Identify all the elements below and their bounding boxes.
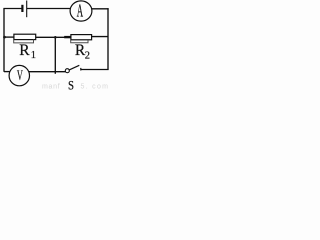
wire smudge before R2	[64, 36, 71, 38]
svg-text:S: S	[68, 78, 74, 92]
wire bottom-left corner to voltmeter	[4, 71, 10, 73]
wire middle vertical (node between R1 and R2 down to voltmeter row)	[54, 37, 56, 74]
wire top segment 2	[27, 8, 71, 10]
wire right rail	[107, 8, 109, 69]
voltmeter V circle	[9, 65, 29, 85]
wire middle segment 3	[91, 36, 108, 38]
battery negative plate (short thick)	[21, 5, 23, 12]
svg-text:V: V	[17, 66, 23, 83]
svg-text:R: R	[19, 42, 30, 59]
resistor R1 box	[14, 34, 36, 39]
resistor R2 box 3D bottom face	[71, 40, 88, 43]
svg-text:manf: manf	[42, 84, 60, 91]
wire voltmeter to switch	[29, 71, 66, 73]
svg-text:1: 1	[31, 50, 36, 61]
svg-text:5. com: 5. com	[81, 83, 110, 90]
resistor R1 box 3D bottom face	[14, 39, 34, 43]
wire switch to bottom-right corner	[81, 69, 109, 71]
svg-text:2: 2	[85, 50, 90, 61]
svg-text:A: A	[77, 1, 83, 20]
resistor R2 box	[71, 35, 92, 40]
switch S blade	[69, 65, 79, 70]
node junction dot middle vertical / middle wire	[54, 36, 57, 39]
wire top segment 1	[3, 8, 21, 10]
wire left rail	[3, 9, 5, 72]
wire top segment 3	[92, 8, 109, 10]
wire middle segment 1	[4, 36, 14, 38]
node junction dot left rail / middle wire	[3, 36, 6, 39]
switch S fixed contact tick	[80, 68, 82, 71]
wire middle segment 2	[36, 36, 71, 38]
battery positive plate (long thin)	[26, 1, 28, 18]
ammeter A circle	[70, 1, 92, 21]
switch S pivot circle	[65, 69, 69, 73]
